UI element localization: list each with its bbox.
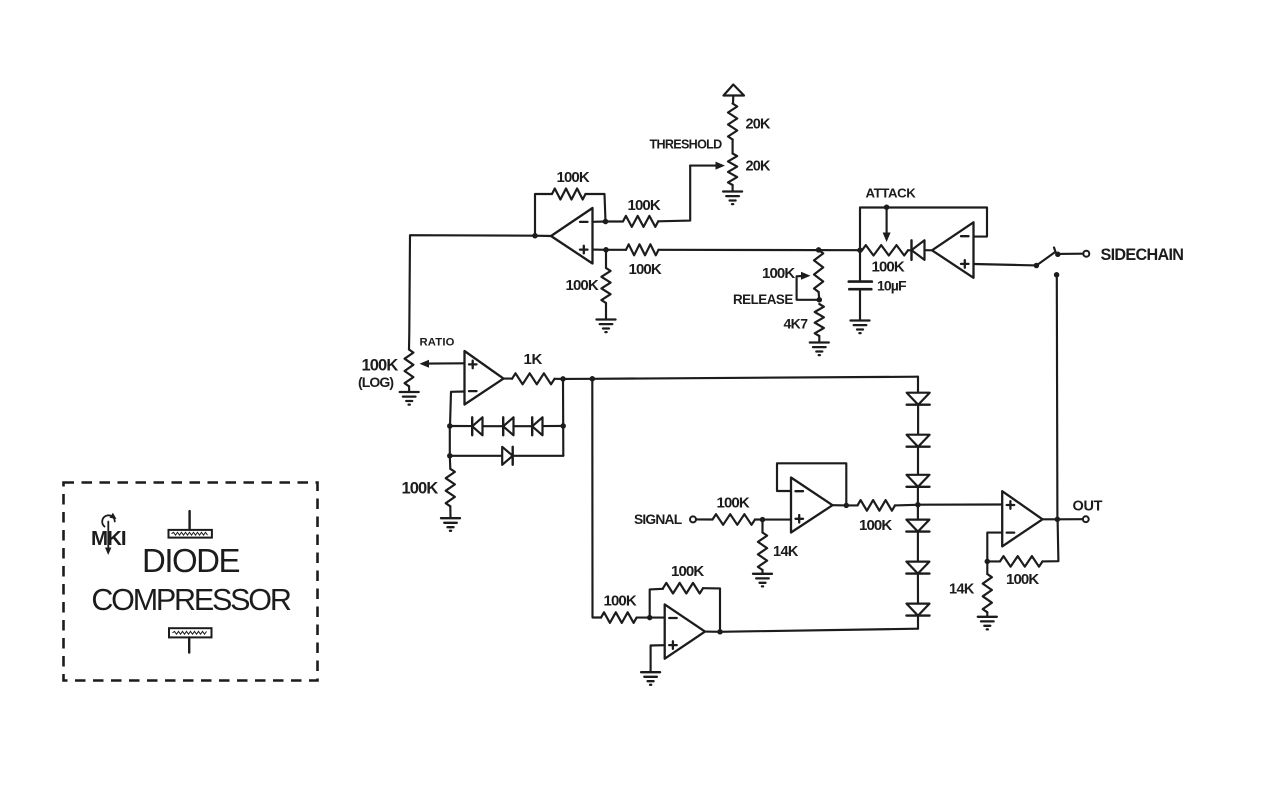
node (switch throw down): [1054, 272, 1060, 278]
wire (R13 to output): [1043, 519, 1059, 561]
wire (R14 to ground): [986, 612, 988, 616]
ground (under R7): [441, 518, 460, 531]
wire (D2-D3): [514, 425, 533, 427]
wire (ladder tap to U6 +): [918, 503, 1002, 505]
resistor RATIO pot 100K (LOG): [405, 350, 414, 387]
wire (U1 output to left rail): [409, 235, 551, 349]
wire (to R2): [606, 220, 624, 222]
ground (under U5 +): [641, 672, 660, 685]
label 100K (U1 feedback): [557, 169, 590, 186]
wire (R4 drop): [605, 250, 607, 268]
resistor R13 100K (U6 feedback): [1000, 556, 1043, 567]
resistor R7 100K (diode net to ground): [446, 469, 455, 507]
wire (node A to node B): [563, 378, 592, 380]
resistor R3 100K (U1 + input, to sidechain bus): [626, 244, 659, 255]
svg-text:100K: 100K: [566, 277, 599, 294]
diode D12 (ladder 5): [906, 562, 929, 574]
wire (U5 output to ladder bottom): [705, 629, 918, 632]
svg-text:4K7: 4K7: [784, 315, 809, 331]
label SIDECHAIN: [1101, 246, 1184, 264]
wire (U3 output): [504, 378, 513, 380]
node (gain node A): [560, 376, 566, 382]
switch SW1 lever: [1036, 248, 1055, 266]
wire (U5 + to ground): [651, 645, 665, 671]
node (U6 feedback node): [985, 559, 991, 565]
wire (U1 + input): [593, 249, 607, 251]
resistor R12 100K (U4 output): [858, 500, 896, 511]
logo dashed border: [64, 483, 318, 681]
label 100K (R9): [671, 563, 704, 580]
resistor R14 14K: [983, 574, 992, 612]
wire (D11-D12): [917, 532, 919, 562]
ground (under 4K7): [810, 343, 829, 356]
label 4K7: [784, 315, 809, 331]
svg-text:COMPRESSOR: COMPRESSOR: [91, 583, 290, 617]
ground (under C1): [851, 321, 870, 334]
label ATTACK: [866, 186, 917, 201]
logo text DIODE: [142, 542, 240, 579]
label THRESHOLD: [650, 138, 723, 152]
logo tuning doodle (swirl + needle arrow): [102, 513, 116, 555]
wire (signal jack to R10): [696, 518, 712, 520]
wire (sidechain bus down to output): [1056, 277, 1059, 520]
node (OUT node): [1055, 517, 1061, 523]
svg-text:100K: 100K: [557, 169, 590, 186]
diode D8 (ladder 1): [907, 393, 930, 405]
logo MKI text: [91, 527, 126, 550]
diode D1 (feedback, series 1): [472, 417, 482, 435]
svg-text:THRESHOLD: THRESHOLD: [650, 138, 723, 152]
op-amp U1: [551, 208, 593, 264]
svg-text:20K: 20K: [746, 117, 772, 133]
resistor R1 100K (U1 feedback): [552, 189, 586, 200]
wire (to R3): [606, 249, 626, 251]
label 100K (R2): [628, 197, 661, 214]
terminal (SIGNAL jack): [690, 516, 696, 522]
svg-text:RELEASE: RELEASE: [733, 292, 793, 307]
wire (U5 feedback right): [703, 588, 720, 632]
wire (ladder top segment): [917, 377, 919, 393]
resistor R8 100K (U5 input): [601, 612, 637, 623]
label 20K (upper): [746, 117, 772, 133]
svg-text:SIDECHAIN: SIDECHAIN: [1101, 246, 1184, 264]
wire (threshold wiper riser): [658, 166, 690, 222]
svg-text:100K: 100K: [1006, 571, 1039, 588]
svg-text:100K: 100K: [717, 494, 750, 511]
label 20K (lower): [746, 159, 772, 175]
wire (lower row right): [513, 455, 563, 457]
resistor 20K (upper half of THRESHOLD pot): [728, 104, 737, 140]
node (diode net left bottom): [447, 453, 453, 459]
wire (ratio pot to ground): [408, 386, 410, 391]
wire (U1 - input): [593, 220, 606, 222]
diode D9 (ladder 2): [907, 435, 930, 447]
op-amp U4: [791, 478, 833, 533]
diode D13 (ladder 6): [907, 604, 930, 616]
node (diode net right): [560, 423, 566, 429]
wire (top rail to diode ladder): [592, 377, 918, 379]
wire (U2 + output to switch): [974, 264, 1037, 265]
wire (R12 to ladder tap): [895, 504, 917, 507]
wire (R4 to ground): [605, 303, 607, 319]
label 100K (R4): [566, 277, 599, 294]
wire (D1-D2): [483, 425, 504, 427]
label 100K (R8): [604, 593, 637, 610]
wire (D3 to right node): [543, 425, 564, 427]
wire (attack top loop): [860, 208, 987, 251]
wire (1K to node): [555, 378, 564, 380]
wire (lower row left): [450, 455, 502, 457]
node (attack / cap junction): [857, 247, 863, 253]
node (ladder tap): [915, 502, 921, 508]
wire (node to U5 -): [650, 617, 665, 619]
svg-text:100K: 100K: [872, 258, 905, 275]
svg-text:14K: 14K: [773, 544, 799, 560]
label RELEASE: [733, 292, 793, 307]
wire (D12-D13): [917, 574, 919, 604]
label RATIO: [420, 336, 455, 348]
wiper arrow of ATTACK pot: [883, 208, 891, 243]
label 100K (R3): [629, 261, 662, 278]
diode D10 (ladder 3): [907, 475, 930, 487]
capacitor C1 10uF: [849, 250, 872, 319]
wire (node B down to U5 input): [592, 379, 601, 618]
ground (threshold pot): [723, 192, 742, 205]
terminal (SIDECHAIN jack): [1083, 251, 1089, 257]
diode D11 (ladder 4): [906, 520, 929, 532]
wire (U6 output): [1043, 518, 1083, 520]
label SIGNAL: [634, 512, 682, 527]
node (U1 output / feedback): [532, 233, 538, 239]
logo text COMPRESSOR: [91, 583, 290, 617]
node (switch throw to sidechain): [1055, 252, 1061, 257]
wire (D9-D10): [917, 447, 919, 475]
svg-text:10µF: 10µF: [877, 277, 907, 293]
node (switch common): [1034, 263, 1040, 269]
node (U1 inverting input): [603, 219, 609, 225]
wire (sidechain bus): [659, 249, 861, 252]
label 100K (attack): [872, 258, 905, 275]
diode D2 (feedback, series 2): [503, 417, 513, 435]
wire (R11 top stub): [761, 520, 763, 533]
node (release pot bottom / wiper tie): [817, 297, 823, 303]
wire (U6 - loop): [987, 533, 1002, 562]
wire (fb node to R13): [987, 560, 1000, 562]
ground (under R14): [978, 617, 997, 630]
op-amp U2: [932, 222, 974, 277]
svg-text:DIODE: DIODE: [142, 542, 240, 579]
resistor R5 4K7: [815, 304, 824, 336]
wire (U4 feedback loop): [777, 463, 846, 505]
logo top terminal symbol: [169, 511, 212, 538]
wire (R8 to node): [637, 617, 650, 619]
diode D3 (feedback, series 3): [532, 417, 542, 435]
wiper arrow of THRESHOLD pot: [690, 162, 725, 170]
wire (left top to D1a): [450, 425, 472, 427]
diode D7 (attack): [908, 240, 932, 260]
label 14K (R14): [949, 581, 975, 597]
label (LOG): [358, 374, 393, 390]
svg-text:100K: 100K: [762, 265, 795, 282]
label 100K (ratio): [362, 357, 399, 375]
node (U5 output): [717, 629, 723, 635]
resistor R11 14K: [758, 533, 767, 571]
wire (R10 to node): [755, 518, 763, 520]
label 100K (R7): [402, 480, 439, 498]
ground (under R4): [597, 320, 616, 333]
op-amp U5: [665, 604, 705, 658]
node (attack wiper tap): [884, 204, 890, 210]
label 100K (release): [762, 265, 795, 282]
wire (node A down through diode rows): [562, 379, 564, 456]
wire (U5 feedback left): [650, 589, 663, 618]
wire (R7 to ground): [449, 506, 451, 517]
svg-text:RATIO: RATIO: [420, 336, 455, 348]
resistor RELEASE pot 100K: [814, 250, 823, 292]
label 100K (R10): [717, 494, 750, 511]
ground (under R11): [753, 574, 772, 587]
label 100K (R13): [1006, 571, 1039, 588]
svg-text:1K: 1K: [524, 351, 543, 368]
wire (ladder bottom segment): [917, 616, 919, 629]
resistor R4 100K (U1 + to ground): [601, 268, 610, 303]
wire (left vertical of diode net): [449, 426, 451, 456]
label OUT: [1073, 498, 1103, 514]
wiper arrow of RATIO pot: [420, 360, 464, 368]
svg-text:(LOG): (LOG): [358, 374, 393, 390]
resistor R9 100K (U5 feedback): [663, 583, 703, 594]
wire (threshold pot to ground): [732, 185, 734, 191]
logo bottom terminal symbol: [169, 628, 212, 652]
node (U4 output): [844, 503, 850, 509]
label 100K (R12): [859, 517, 892, 534]
wire (R11 to ground): [761, 570, 763, 573]
svg-text:14K: 14K: [949, 581, 975, 597]
svg-text:20K: 20K: [746, 159, 772, 175]
svg-text:100K: 100K: [402, 480, 439, 498]
node (node B): [590, 376, 596, 382]
supply terminal arrow (top of threshold pot): [724, 85, 745, 104]
svg-text:100K: 100K: [604, 593, 637, 610]
wire (to sidechain jack): [1059, 253, 1083, 255]
resistor 20K (lower half of THRESHOLD pot): [728, 154, 737, 186]
op-amp U3: [465, 351, 504, 405]
wire (D8-D9): [917, 405, 919, 435]
wire (4K7 to ground): [818, 336, 820, 342]
resistor ATTACK pot 100K: [862, 245, 908, 255]
svg-text:SIGNAL: SIGNAL: [634, 512, 682, 527]
diode D4 (feedback, reverse): [502, 447, 513, 465]
ground (under ratio pot): [400, 392, 419, 405]
svg-text:OUT: OUT: [1073, 498, 1103, 514]
node (U4 + node): [760, 517, 766, 523]
op-amp U6: [1002, 491, 1042, 546]
label 10µF: [877, 277, 907, 293]
wire (U1 feedback left leg): [535, 194, 552, 236]
resistor R6 1K: [512, 373, 555, 384]
wire (U3 - input down): [450, 392, 465, 427]
node (diode net left top): [447, 423, 453, 429]
wire (U1 feedback right leg): [586, 194, 606, 222]
wire (R14 top stub): [986, 561, 988, 574]
label 14K (R11): [773, 544, 799, 560]
node (U1 non-inverting input): [603, 247, 609, 253]
wire (between threshold pot halves): [732, 140, 734, 154]
wire (R7 top stub): [449, 456, 452, 469]
wire (release pot bottom): [818, 292, 821, 300]
wire (U4 output): [833, 504, 858, 506]
terminal (OUT jack): [1083, 516, 1089, 522]
svg-text:100K: 100K: [628, 197, 661, 214]
resistor R2 100K (U1 - input): [623, 216, 658, 227]
svg-text:100K: 100K: [671, 563, 704, 580]
node (U5 - node): [647, 615, 653, 621]
svg-text:100K: 100K: [859, 517, 892, 534]
label 1K: [524, 351, 543, 368]
svg-text:100K: 100K: [362, 357, 399, 375]
resistor R10 100K (signal input): [713, 514, 756, 525]
wire (D10-tap): [917, 487, 919, 520]
wiper arrow of RELEASE pot: [797, 272, 820, 300]
svg-text:ATTACK: ATTACK: [866, 186, 917, 201]
node (release pot top): [816, 247, 822, 253]
wire (node to U4 +): [763, 519, 792, 521]
svg-text:100K: 100K: [629, 261, 662, 278]
